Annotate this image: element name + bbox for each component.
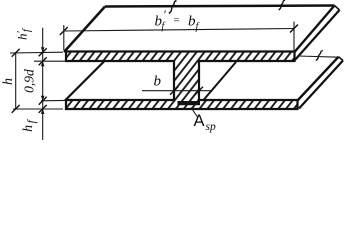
- extension line bottom of top flange: [34, 60, 66, 62]
- dimension b'f = bf extension left: [63, 25, 65, 50]
- break mark on back edge (left): [169, 1, 177, 14]
- top flange end face right edge: [335, 6, 340, 11]
- break mark on bottom flange back edge: [316, 51, 323, 61]
- tick at bottom of section: [39, 105, 47, 113]
- extension line top of section: [10, 51, 63, 54]
- tick h top: [12, 49, 20, 57]
- tick at top of bottom flange: [39, 97, 47, 105]
- tick right: [290, 25, 298, 33]
- tick b left: [170, 87, 178, 95]
- svg-text:=: =: [174, 15, 180, 27]
- svg-text:hf: hf: [21, 118, 38, 132]
- top flange end face outer edge: [295, 6, 335, 53]
- tick at bottom of top flange: [39, 57, 47, 65]
- tick at top of flange: [39, 48, 47, 56]
- tick h bottom: [12, 105, 20, 113]
- dimension b line: [142, 90, 211, 92]
- dimension line h: [15, 53, 17, 109]
- I-section cross face (hatched: top flange, web, bottom flange): [66, 52, 298, 110]
- bottom flange end face outer edge: [298, 57, 339, 101]
- svg-text:h′f: h′f: [15, 27, 33, 40]
- extension line bottom of section: [13, 108, 63, 110]
- arrow down at top of flange: [41, 47, 45, 52]
- svg-text:A: A: [194, 112, 205, 130]
- reinforcement Asp bar: [178, 101, 201, 105]
- arrow up at bottom of section: [41, 109, 45, 114]
- svg-text:′: ′: [163, 8, 166, 22]
- web / bottom flange intersection edge: [204, 62, 237, 100]
- top flange end face inner edge: [294, 10, 340, 61]
- arrow down at top of bottom flange: [41, 96, 45, 101]
- tick b right: [195, 87, 203, 95]
- top flange top-surface left edge: [64, 7, 105, 53]
- extension line top of bottom flange: [41, 99, 66, 101]
- dimension b'f = bf extension right: [293, 22, 295, 52]
- dimension line b'f = bf: [64, 29, 294, 32]
- bottom flange end face inner edge: [299, 61, 343, 109]
- tick left: [60, 27, 68, 35]
- arrow up at bottom of top flange: [41, 61, 45, 66]
- bottom flange end face right edge: [339, 57, 344, 61]
- svg-text:h: h: [1, 78, 16, 85]
- svg-text:0,9d: 0,9d: [22, 69, 37, 93]
- svg-text:f: f: [196, 22, 200, 33]
- bottom flange back edge (visible part): [298, 56, 339, 57]
- Asp leader line: [191, 108, 198, 118]
- dimension line h'f / 0,9d / hf: [42, 28, 44, 140]
- top flange top-surface back edge: [105, 6, 335, 7]
- bottom flange top-surface left edge: [65, 62, 104, 101]
- break mark on back edge (right): [279, 0, 285, 10]
- svg-text:sp: sp: [206, 121, 216, 133]
- svg-text:b: b: [154, 74, 162, 90]
